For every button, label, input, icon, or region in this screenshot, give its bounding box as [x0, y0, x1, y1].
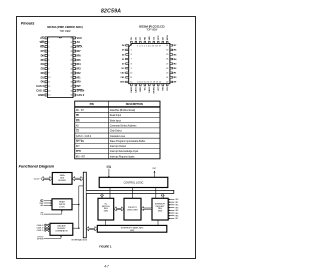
svg-text:82C59A (PLCC/CLCC): 82C59A (PLCC/CLCC): [139, 26, 164, 29]
svg-text:IR5: IR5: [175, 213, 178, 215]
svg-text:IR2: IR2: [77, 71, 82, 75]
svg-text:GND: GND: [120, 82, 125, 84]
svg-text:10: 10: [130, 72, 132, 74]
svg-text:21: 21: [70, 68, 72, 70]
svg-text:INTA: INTA: [106, 166, 111, 169]
svg-text:D0-D7: D0-D7: [34, 179, 41, 181]
svg-text:IR1: IR1: [77, 75, 82, 79]
svg-text:4: 4: [48, 51, 49, 53]
svg-text:D0: D0: [41, 80, 45, 84]
svg-text:VCC: VCC: [77, 36, 83, 40]
svg-text:CS: CS: [76, 131, 80, 133]
svg-text:Data Bus (Bi-Directional): Data Bus (Bi-Directional): [110, 109, 136, 112]
svg-text:14: 14: [48, 95, 50, 97]
svg-text:5: 5: [48, 55, 49, 57]
svg-text:Cascade Lines: Cascade Lines: [110, 136, 126, 138]
svg-text:27: 27: [70, 42, 72, 44]
svg-text:17: 17: [70, 86, 72, 88]
svg-text:Write Input: Write Input: [110, 119, 121, 122]
svg-text:27: 27: [166, 63, 168, 65]
svg-text:IR0 - IR7: IR0 - IR7: [76, 156, 86, 158]
svg-text:D3: D3: [41, 67, 45, 71]
svg-text:RESOLVER: RESOLVER: [127, 209, 138, 211]
svg-text:D4: D4: [41, 62, 45, 66]
svg-text:IR7: IR7: [77, 49, 82, 53]
svg-text:23: 23: [166, 82, 168, 84]
svg-text:INTERNAL BUS: INTERNAL BUS: [71, 239, 87, 242]
svg-text:82C59A: 82C59A: [101, 9, 121, 15]
svg-text:D0 - D7: D0 - D7: [76, 110, 85, 112]
svg-text:INT: INT: [77, 84, 82, 88]
svg-text:CAS0: CAS0: [130, 86, 133, 92]
svg-text:26: 26: [70, 46, 72, 48]
svg-text:24: 24: [70, 55, 72, 57]
svg-text:20: 20: [70, 73, 72, 75]
svg-text:7: 7: [131, 59, 132, 61]
svg-text:Interrupt Request Inputs: Interrupt Request Inputs: [110, 155, 135, 158]
svg-text:(ISR): (ISR): [104, 211, 109, 213]
svg-text:PIN: PIN: [90, 103, 94, 106]
svg-text:CAS 0: CAS 0: [36, 84, 44, 88]
svg-text:SP/EN: SP/EN: [154, 87, 156, 94]
svg-text:D1: D1: [41, 75, 45, 79]
svg-text:LOGIC: LOGIC: [59, 206, 66, 208]
svg-text:CS: CS: [40, 214, 44, 216]
svg-text:13: 13: [48, 90, 50, 92]
svg-text:INT: INT: [76, 146, 80, 148]
svg-text:FIGURE 1.: FIGURE 1.: [99, 244, 112, 248]
svg-text:IR6: IR6: [77, 53, 82, 57]
svg-text:5: 5: [131, 50, 132, 52]
svg-text:IR3: IR3: [77, 67, 82, 71]
svg-text:28: 28: [70, 38, 72, 40]
svg-text:IR0: IR0: [175, 199, 178, 201]
svg-text:15: 15: [70, 95, 72, 97]
svg-text:CAS 2: CAS 2: [37, 229, 44, 232]
svg-text:7: 7: [48, 64, 49, 66]
svg-text:GND: GND: [140, 87, 142, 92]
svg-text:Functional Diagram: Functional Diagram: [19, 164, 55, 168]
svg-text:CAS 0: CAS 0: [37, 224, 44, 227]
svg-text:Command Select Address: Command Select Address: [110, 124, 137, 127]
svg-text:Interrupt Output: Interrupt Output: [110, 145, 126, 148]
svg-text:24: 24: [166, 77, 168, 79]
svg-text:Slave Program Input Enable Buf: Slave Program Input Enable Buffer: [110, 140, 146, 143]
svg-text:13 14 15 16 17 18 19 20: 13 14 15 16 17 18 19 20: [137, 82, 161, 84]
svg-text:BUFFER: BUFFER: [58, 180, 66, 182]
svg-text:IR4: IR4: [175, 210, 178, 212]
svg-text:10: 10: [48, 77, 50, 79]
svg-text:22: 22: [70, 64, 72, 66]
svg-text:23: 23: [70, 60, 72, 62]
svg-text:RD: RD: [76, 115, 80, 117]
svg-text:4-7: 4-7: [104, 264, 109, 268]
svg-text:INTA: INTA: [76, 150, 82, 153]
svg-text:(IRR): (IRR): [158, 211, 163, 213]
svg-text:5 4 3 2 1 40 39 38 37: 5 4 3 2 1 40 39 38 37: [137, 45, 161, 47]
svg-text:WR: WR: [76, 120, 80, 122]
svg-text:IR5: IR5: [77, 58, 82, 62]
svg-text:1: 1: [48, 38, 49, 40]
svg-text:D2: D2: [41, 71, 45, 75]
svg-text:(IMR): (IMR): [130, 230, 135, 232]
svg-text:VCC: VCC: [158, 35, 160, 40]
svg-text:CAS2: CAS2: [148, 86, 151, 92]
svg-text:Read Input: Read Input: [110, 114, 122, 117]
svg-text:30: 30: [166, 50, 168, 52]
svg-text:D6: D6: [41, 53, 45, 57]
svg-text:D7: D7: [41, 49, 45, 53]
svg-text:9: 9: [131, 68, 132, 70]
svg-text:SP / EN: SP / EN: [76, 141, 84, 143]
svg-text:25: 25: [70, 51, 72, 53]
svg-text:18: 18: [70, 82, 72, 84]
svg-text:11: 11: [130, 77, 132, 79]
svg-text:CAS 0 - CAS 2: CAS 0 - CAS 2: [76, 135, 92, 138]
svg-text:RD: RD: [145, 36, 147, 40]
svg-text:12: 12: [48, 86, 50, 88]
svg-text:CONTROL LOGIC: CONTROL LOGIC: [124, 182, 144, 185]
svg-text:3: 3: [48, 46, 49, 48]
svg-text:26: 26: [166, 68, 168, 70]
svg-text:SP/EN: SP/EN: [37, 238, 44, 240]
svg-text:Pinouts: Pinouts: [21, 21, 35, 25]
svg-text:82C59A (PDIP, CERDIP, SOIC): 82C59A (PDIP, CERDIP, SOIC): [47, 25, 83, 29]
svg-text:9: 9: [48, 73, 49, 75]
svg-text:6: 6: [131, 54, 132, 56]
svg-text:GND: GND: [38, 93, 44, 97]
svg-text:CAS 2: CAS 2: [77, 93, 85, 97]
svg-text:D5: D5: [41, 58, 45, 62]
svg-text:16: 16: [70, 90, 72, 92]
svg-text:IR4: IR4: [77, 62, 82, 66]
svg-text:A0: A0: [77, 40, 81, 44]
svg-text:8: 8: [48, 68, 49, 70]
svg-text:Chip Select: Chip Select: [110, 130, 122, 133]
svg-text:12: 12: [130, 82, 132, 84]
svg-text:NC: NC: [145, 87, 147, 91]
svg-text:29: 29: [166, 54, 168, 56]
svg-text:TOP VIEW: TOP VIEW: [60, 31, 72, 33]
svg-text:2: 2: [48, 42, 49, 44]
svg-text:4: 4: [131, 45, 132, 47]
svg-text:IR0: IR0: [77, 80, 82, 84]
svg-text:DESCRIPTION: DESCRIPTION: [126, 103, 143, 106]
svg-text:28: 28: [166, 59, 168, 61]
svg-text:19: 19: [70, 77, 72, 79]
svg-text:IR6: IR6: [175, 216, 178, 218]
svg-text:IR2: IR2: [175, 205, 178, 207]
svg-text:11: 11: [48, 82, 50, 84]
svg-text:IR7: IR7: [175, 218, 178, 220]
svg-text:INTA: INTA: [166, 35, 169, 40]
svg-text:IR1: IR1: [175, 202, 178, 204]
svg-text:WR: WR: [149, 36, 151, 40]
svg-text:8: 8: [131, 63, 132, 65]
svg-text:31: 31: [166, 45, 168, 47]
svg-text:IR3: IR3: [175, 207, 178, 209]
svg-text:COMPARATOR: COMPARATOR: [55, 230, 68, 233]
svg-text:CAS1: CAS1: [135, 86, 138, 92]
svg-text:CAS 1: CAS 1: [36, 88, 44, 92]
svg-text:TOP VIEW: TOP VIEW: [146, 30, 158, 32]
svg-text:Interrupt Acknowledge Input: Interrupt Acknowledge Input: [110, 150, 139, 153]
svg-text:25: 25: [166, 72, 168, 74]
svg-text:6: 6: [48, 60, 49, 62]
